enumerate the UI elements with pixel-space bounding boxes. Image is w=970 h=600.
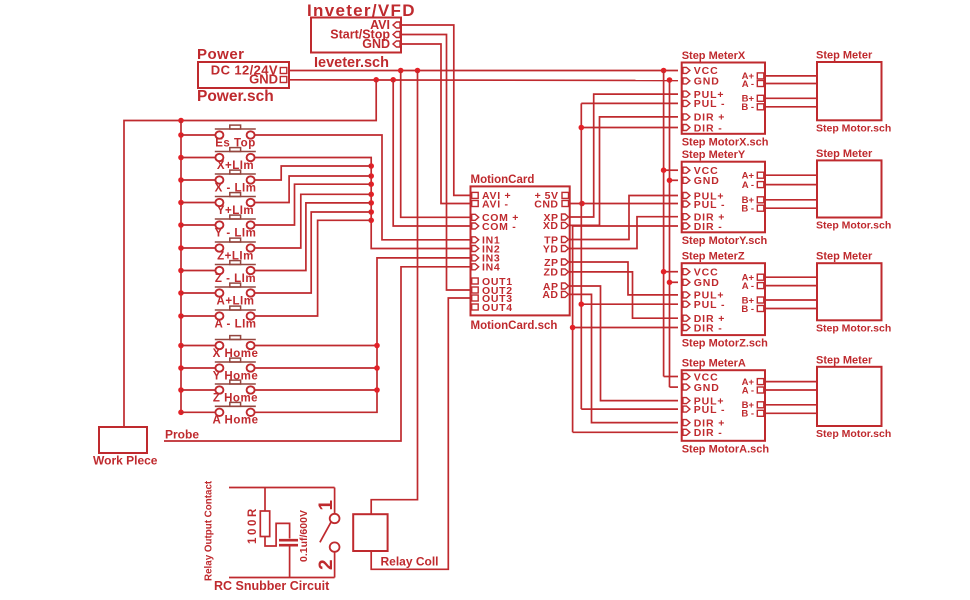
svg-text:GND: GND [694, 277, 720, 289]
wire TP to Step MeterY PUL+ [570, 196, 678, 240]
wire DC 12/24V rail from Power to Step MeterX VCC [289, 68, 678, 74]
pin PUL+ of Step MeterZ [683, 290, 725, 302]
pin + 5V of MotionCard [535, 190, 569, 202]
wire PUL- common tie [579, 103, 679, 409]
svg-text:PUL -: PUL - [694, 199, 726, 211]
label Step Motor.sch (motor Z) [816, 322, 891, 334]
svg-text:Step Meter: Step Meter [816, 251, 873, 263]
wire Step MeterY B+ to Step Motor [765, 199, 817, 201]
pushbutton switch Y+LIm [181, 193, 256, 217]
svg-text:Step MeterY: Step MeterY [682, 149, 746, 161]
pin VCC of Step MeterZ [683, 267, 719, 279]
pin AD of MotionCard [542, 289, 568, 301]
pin IN1 of MotionCard [472, 235, 501, 247]
wire AP to Step MeterA PUL+ [570, 286, 678, 401]
svg-text:IN4: IN4 [482, 262, 500, 274]
svg-text:Step MotorY.sch: Step MotorY.sch [682, 235, 768, 247]
label MotionCard.sch [471, 320, 558, 332]
pushbutton switch Es Top [181, 125, 256, 149]
wire Es Top to MotionCard IN1 [254, 135, 470, 240]
svg-text:Step Motor.sch: Step Motor.sch [816, 220, 891, 232]
svg-text:Power.sch: Power.sch [197, 88, 274, 105]
pin AP of MotionCard [543, 281, 569, 293]
svg-text:OUT4: OUT4 [482, 302, 513, 314]
wire Step MeterX A+ to Step Motor [765, 75, 817, 77]
relay contact switch [320, 488, 340, 578]
svg-text:GND: GND [694, 76, 720, 88]
label Work Plece [93, 454, 158, 468]
wire A+LIm to limit bus [254, 212, 371, 293]
svg-text:PUL -: PUL - [694, 404, 726, 416]
block Step Meter (motor A) [816, 354, 882, 426]
wire GND distribution to Step MeterY/Z/A [667, 80, 678, 387]
pin PUL+ of Step MeterX [683, 89, 725, 101]
wire Step MeterX B - to Step Motor [765, 106, 817, 108]
svg-text:CND: CND [534, 198, 558, 210]
pin Start/Stop of Inveter/VFD [330, 28, 400, 42]
svg-text:Ieveter.sch: Ieveter.sch [314, 55, 389, 71]
pin OUT1 of MotionCard [472, 276, 513, 288]
wire XP to Step MeterX PUL+ [570, 94, 678, 217]
pin A - of Step MeterA [742, 385, 764, 396]
svg-text:Work Plece: Work Plece [93, 454, 158, 468]
pin A+ of Step MeterA [742, 377, 764, 388]
label Relay Output Contact (rotated) [204, 480, 215, 581]
wire CND row to Step MeterY PUL- [570, 201, 678, 207]
pin XP of MotionCard [543, 212, 568, 224]
wire A - LIm to limit bus [254, 220, 371, 316]
pin AVI of Inveter/VFD [370, 18, 400, 32]
pin GND of Step MeterX [683, 76, 720, 88]
sheet symbol Power box [198, 62, 289, 88]
label Ieveter.sch [314, 55, 389, 71]
pin DIR + of Step MeterA [683, 417, 725, 429]
pin A+ of Step MeterZ [742, 273, 764, 284]
pin DIR + of Step MeterX [683, 112, 725, 124]
svg-text:GND: GND [362, 37, 390, 51]
pushbutton switch X Home [181, 336, 258, 360]
pushbutton switch Z Home [181, 380, 258, 404]
label Probe [165, 428, 199, 442]
wire Step MeterZ A+ to Step Motor [765, 276, 817, 278]
wire YD to Step MeterY DIR+ [570, 217, 678, 249]
label terminal 1 (rotated) [316, 500, 337, 511]
block Work Plece [99, 427, 147, 453]
svg-text:Step Meter: Step Meter [816, 50, 873, 62]
svg-text:Probe: Probe [165, 428, 199, 442]
sheet-symbol title Power [197, 46, 245, 63]
label 0.1uf/600V (rotated) [298, 510, 310, 562]
svg-text:B -: B - [741, 204, 754, 215]
label 100R (rotated) [247, 506, 259, 544]
svg-text:Step Meter: Step Meter [816, 148, 873, 160]
svg-text:Step MotorZ.sch: Step MotorZ.sch [682, 338, 768, 350]
wire snubber bottom rail [229, 577, 335, 579]
svg-text:DIR -: DIR - [694, 322, 723, 334]
pin XD of MotionCard [543, 220, 569, 232]
pin DIR - of Step MeterX [683, 122, 723, 134]
pushbutton switch Z - LIm [181, 261, 256, 285]
pin B+ of Step MeterA [742, 400, 764, 411]
label RC Snubber Circuit [214, 579, 330, 593]
pin GND of Step MeterY [683, 175, 720, 187]
wire Step MeterX A - to Step Motor [765, 83, 817, 85]
pin PUL+ of Step MeterY [683, 190, 725, 202]
label Step Motor.sch (motor X) [816, 122, 891, 134]
wire Step MeterA B - to Step Motor [765, 412, 817, 414]
svg-text:Step Motor.sch: Step Motor.sch [816, 322, 891, 334]
wire Step MeterY A - to Step Motor [765, 184, 817, 186]
wire Inveter Start/Stop down to MotionCard OUT2 [401, 35, 471, 291]
pin GND of Step MeterZ [683, 277, 720, 289]
svg-text:Power: Power [197, 46, 245, 63]
label Step MotorY.sch [682, 235, 768, 247]
wire Step MeterX B+ to Step Motor [765, 97, 817, 99]
pin AVI + of MotionCard [472, 190, 512, 202]
label Step MotorA.sch [682, 443, 770, 455]
svg-text:A -: A - [742, 385, 754, 396]
pin PUL+ of Step MeterA [683, 395, 725, 407]
svg-text:DIR -: DIR - [694, 427, 723, 439]
wire Step MeterY A+ to Step Motor [765, 174, 817, 176]
svg-text:DIR -: DIR - [694, 122, 723, 134]
pin COM - of MotionCard [472, 221, 517, 233]
sheet symbol MotionCard box [471, 186, 570, 315]
wire Probe to MotionCard IN4 [164, 267, 471, 441]
pin VCC of Step MeterY [683, 165, 719, 177]
pin ZP of MotionCard [544, 257, 568, 269]
pin PUL - of Step MeterX [683, 98, 726, 110]
label terminal 2 (rotated) [316, 559, 337, 570]
pin DIR + of Step MeterZ [683, 313, 725, 325]
wire Z+LIm to limit bus [254, 194, 371, 248]
svg-text:GND: GND [694, 175, 720, 187]
pin B - of Step MeterY [741, 204, 763, 215]
wire Step MeterZ B - to Step Motor [765, 308, 817, 310]
wire DC rail down to MotionCard COM+ [401, 71, 471, 218]
capacitor 0.1uf/600V [279, 540, 298, 577]
pin B - of Step MeterA [741, 409, 763, 420]
svg-text:PUL -: PUL - [694, 299, 726, 311]
pushbutton switch A+LIm [181, 283, 256, 307]
label Power.sch [197, 88, 274, 105]
wire Step MeterZ A - to Step Motor [765, 285, 817, 287]
svg-text:Step MeterZ: Step MeterZ [682, 251, 745, 263]
svg-text:Relay Coll: Relay Coll [381, 555, 439, 569]
wire Y+LIm to limit bus [254, 176, 371, 203]
sheet-symbol title Step MeterA [682, 358, 746, 370]
svg-text:COM -: COM - [482, 221, 516, 233]
svg-text:Relay Output Contact: Relay Output Contact [204, 480, 215, 581]
pin OUT3 of MotionCard [472, 293, 513, 305]
pin AVI - of MotionCard [472, 198, 509, 210]
wire snubber top rail [229, 487, 335, 489]
pin YD of MotionCard [543, 243, 569, 255]
sheet-symbol title MotionCard [471, 174, 535, 186]
pushbutton switch Y Home [181, 358, 258, 382]
svg-text:1: 1 [316, 500, 337, 511]
block Step Meter (motor Z) [816, 251, 882, 321]
svg-text:100R: 100R [247, 506, 259, 544]
wire X - LIm to limit bus [254, 166, 371, 180]
pin A+ of Step MeterX [742, 71, 764, 82]
svg-text:B -: B - [741, 102, 754, 113]
pin B+ of Step MeterY [742, 195, 764, 206]
label Step Motor.sch (motor Y) [816, 220, 891, 232]
svg-text:YD: YD [543, 243, 559, 255]
wire Step MeterZ B+ to Step Motor [765, 299, 817, 301]
pin IN4 of MotionCard [472, 262, 501, 274]
svg-text:2: 2 [316, 559, 337, 570]
wire ZP to Step MeterZ PUL+ [570, 262, 678, 295]
wire GND rail from Power to Step MeterX GND [289, 77, 678, 83]
svg-text:Step MotorA.sch: Step MotorA.sch [682, 443, 770, 455]
wire Z - LIm to limit bus [254, 203, 371, 271]
pin VCC of Step MeterX [683, 65, 719, 77]
pin PUL - of Step MeterA [683, 404, 726, 416]
svg-text:GND: GND [694, 382, 720, 394]
pin IN3 of MotionCard [472, 253, 501, 265]
wire Step MeterA B+ to Step Motor [765, 404, 817, 406]
svg-text:Step MeterA: Step MeterA [682, 358, 746, 370]
pushbutton switch X+LIm [181, 148, 256, 172]
pin B - of Step MeterX [741, 102, 763, 113]
wire ZD to Step MeterZ DIR+ [570, 272, 678, 318]
svg-text:0.1uf/600V: 0.1uf/600V [298, 510, 310, 562]
relay coil box [353, 514, 387, 551]
sheet-symbol title Inveter/VFD [307, 1, 416, 20]
pin DIR - of Step MeterA [683, 427, 723, 439]
svg-text:B -: B - [741, 409, 754, 420]
block Step Meter (motor X) [816, 50, 882, 121]
pin OUT4 of MotionCard [472, 302, 513, 314]
pin B - of Step MeterZ [741, 304, 763, 315]
svg-text:A -: A - [742, 180, 754, 191]
pin OUT2 of MotionCard [472, 285, 513, 297]
wire DIR- common tie [570, 226, 678, 432]
wire X+LIm limit bus down to MotionCard IN2 [254, 158, 470, 249]
block Step Meter (motor Y) [816, 148, 882, 218]
sheet symbol Step MeterZ box [682, 263, 765, 335]
label Step MotorX.sch [682, 136, 769, 148]
pin B+ of Step MeterX [742, 94, 764, 105]
pin A - of Step MeterZ [742, 281, 764, 292]
svg-text:XD: XD [543, 220, 559, 232]
resistor 100R [260, 488, 289, 547]
wire home switches bus to MotionCard IN3 [254, 258, 470, 412]
wire Step MeterA A - to Step Motor [765, 389, 817, 391]
pushbutton switch X - LIm [181, 170, 256, 194]
pin GND of Power [249, 72, 287, 87]
wire Y - LIm to limit bus [254, 184, 371, 225]
wire DC rail down to Relay Coil top [371, 71, 417, 515]
pin DC 12/24V of Power [211, 63, 287, 78]
pushbutton switch A - LIm [181, 306, 257, 330]
wire Inveter GND down to MotionCard AVI- [401, 44, 471, 204]
wire Inveter AVI down to MotionCard AVI+ [401, 25, 471, 195]
svg-text:B -: B - [741, 304, 754, 315]
svg-text:A -: A - [742, 79, 754, 90]
pin B+ of Step MeterZ [742, 295, 764, 306]
label Step MotorZ.sch [682, 338, 768, 350]
svg-text:A Home: A Home [212, 415, 258, 427]
svg-text:Step MeterX: Step MeterX [682, 50, 746, 62]
wire Step MeterY B - to Step Motor [765, 207, 817, 209]
wire MotionCard OUT3 to Relay Coil bottom [371, 298, 470, 569]
sheet symbol Step MeterX box [682, 63, 765, 134]
wire AD to Step MeterA DIR+ [570, 294, 678, 422]
sheet symbol Step MeterY box [682, 162, 765, 233]
wire GND rail down-left to switch bus and Work Plece [124, 80, 376, 427]
svg-text:AVI -: AVI - [482, 198, 509, 210]
pin DIR - of Step MeterY [683, 221, 723, 233]
wire VCC distribution to Step MeterY/Z/A [661, 71, 678, 377]
pin ZD of MotionCard [544, 267, 569, 279]
svg-text:RC Snubber Circuit: RC Snubber Circuit [214, 579, 330, 593]
pushbutton switch Y - LIm [181, 215, 256, 239]
pin COM + of MotionCard [472, 212, 519, 224]
svg-text:A -: A - [742, 281, 754, 292]
svg-text:GND: GND [249, 72, 278, 87]
label Step Motor.sch (motor A) [816, 428, 891, 440]
svg-text:MotionCard.sch: MotionCard.sch [471, 320, 558, 332]
sheet-symbol title Step MeterY [682, 149, 746, 161]
svg-text:Step MotorX.sch: Step MotorX.sch [682, 136, 769, 148]
pin PUL - of Step MeterY [683, 199, 726, 211]
label Relay Coll [381, 555, 439, 569]
wire GND rail down to MotionCard COM- [393, 80, 470, 226]
svg-text:ZD: ZD [544, 267, 559, 279]
sheet symbol Step MeterA box [682, 370, 765, 441]
pin DIR - of Step MeterZ [683, 322, 723, 334]
pushbutton switch A Home [181, 402, 259, 426]
pushbutton switch Z+LIm [181, 238, 256, 262]
pin VCC of Step MeterA [683, 371, 719, 383]
svg-text:PUL -: PUL - [694, 98, 726, 110]
pin GND of Step MeterA [683, 382, 720, 394]
pin DIR + of Step MeterY [683, 212, 725, 224]
svg-text:Step Meter: Step Meter [816, 354, 873, 366]
svg-text:Step Motor.sch: Step Motor.sch [816, 122, 891, 134]
wire Step MeterA A+ to Step Motor [765, 381, 817, 383]
pin GND of Inveter/VFD [362, 37, 400, 51]
sheet symbol Inveter/VFD box [311, 18, 401, 53]
svg-text:Step Motor.sch: Step Motor.sch [816, 428, 891, 440]
pin CND of MotionCard [534, 198, 568, 210]
svg-text:DIR -: DIR - [694, 221, 723, 233]
pin A - of Step MeterY [742, 180, 764, 191]
pin TP of MotionCard [544, 234, 568, 246]
svg-text:A - LIm: A - LIm [214, 318, 256, 330]
wire vertical switch common bus [178, 121, 184, 416]
svg-text:AD: AD [542, 289, 558, 301]
sheet-symbol title Step MeterX [682, 50, 746, 62]
pin IN2 of MotionCard [472, 243, 501, 255]
pin PUL - of Step MeterZ [683, 299, 726, 311]
sheet-symbol title Step MeterZ [682, 251, 745, 263]
pin A+ of Step MeterY [742, 171, 764, 182]
pin A - of Step MeterX [742, 79, 764, 90]
wire XD to Step MeterX DIR+ [570, 117, 678, 225]
svg-text:MotionCard: MotionCard [471, 174, 535, 186]
